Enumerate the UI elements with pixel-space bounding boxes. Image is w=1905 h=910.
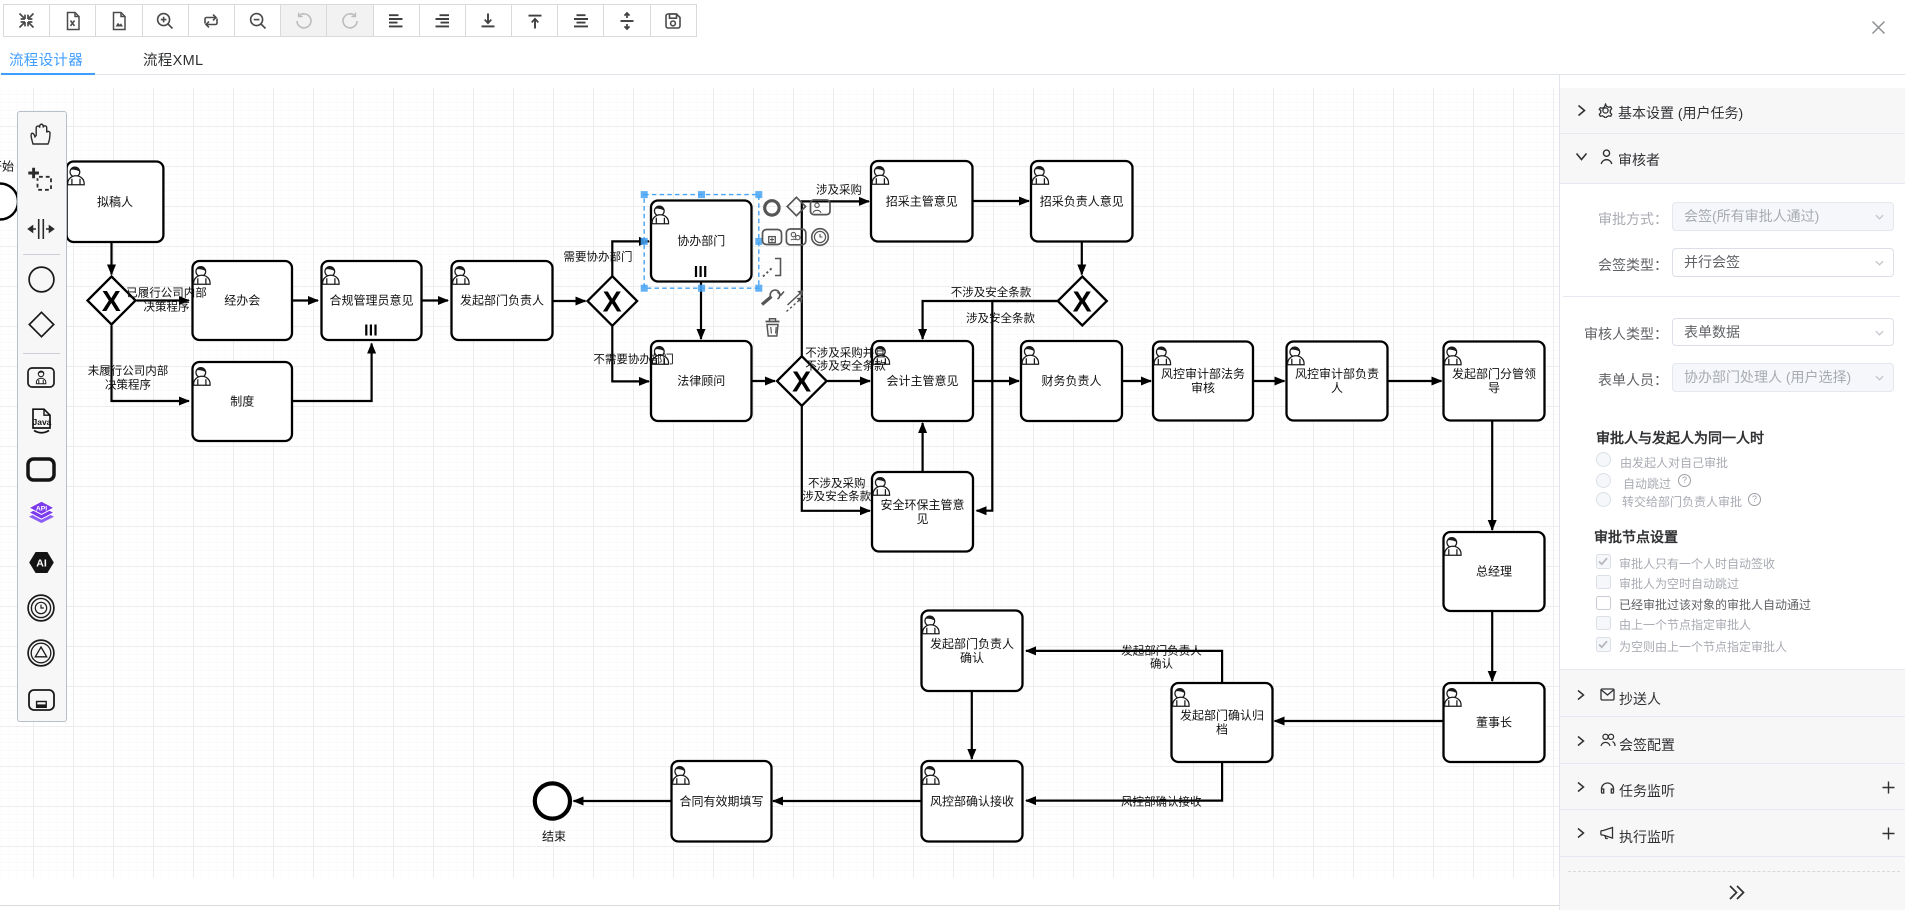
context pad: append call activity bbox=[763, 230, 782, 245]
svg-text:法律顾问: 法律顾问 bbox=[677, 374, 725, 388]
task 拟稿人 bbox=[67, 162, 164, 243]
flow 安全环保主管意见 to 会计主管意见 bbox=[921, 423, 923, 472]
task 招采负责人意见 bbox=[1031, 161, 1133, 242]
svg-text:决策程序: 决策程序 bbox=[105, 378, 151, 392]
task 会计主管意见 bbox=[872, 341, 973, 421]
svg-text:风控部确认接收: 风控部确认接收 bbox=[1121, 795, 1202, 809]
svg-text:X: X bbox=[1073, 286, 1092, 318]
flow 法律顾问 to gw4 bbox=[752, 380, 776, 382]
flow 招采主管意见 to 招采负责人意见 bbox=[973, 200, 1030, 202]
flow 风控审计部负责人 to 发起部门分管领导 bbox=[1388, 380, 1442, 382]
context pad: wrench (change type) bbox=[762, 290, 784, 304]
svg-text:会计主管意见: 会计主管意见 bbox=[886, 373, 958, 388]
svg-text:AI: AI bbox=[37, 557, 48, 569]
svg-text:董事长: 董事长 bbox=[1476, 716, 1512, 730]
svg-text:不涉及采购并且: 不涉及采购并且 bbox=[805, 346, 886, 360]
svg-text:风控审计部负责: 风控审计部负责 bbox=[1295, 366, 1379, 381]
flow 拟稿人 to gw1 bbox=[110, 243, 112, 275]
task 制度 bbox=[193, 362, 293, 441]
task 风控审计部负责人 bbox=[1287, 342, 1388, 421]
gateway gw1 exclusive bbox=[88, 277, 136, 325]
flow 发起部门负责人 to gw2 bbox=[553, 300, 586, 302]
flow 风控审计部法务审核 to 风控审计部负责人 bbox=[1254, 380, 1285, 382]
svg-text:涉及安全条款: 涉及安全条款 bbox=[966, 311, 1035, 325]
svg-text:未履行公司内部: 未履行公司内部 bbox=[88, 364, 169, 378]
svg-text:发起部门分管领: 发起部门分管领 bbox=[1452, 366, 1536, 381]
task 法律顾问 bbox=[651, 341, 752, 421]
flow gw4 to 招采主管意见 涉及采购 bbox=[802, 201, 869, 356]
svg-text:审核: 审核 bbox=[1191, 380, 1215, 395]
context pad: append gateway bbox=[787, 197, 805, 215]
svg-text:决策程序: 决策程序 bbox=[144, 300, 190, 314]
svg-text:已履行公司内部: 已履行公司内部 bbox=[126, 286, 207, 300]
flow gw3 to 会计主管意见 不涉及安全条款 bbox=[923, 301, 1058, 339]
flow gw2 to 法律顾问 不需要协办部门 bbox=[612, 326, 649, 381]
svg-text:不涉及采购: 不涉及采购 bbox=[808, 476, 866, 490]
task 安全环保主管意见 bbox=[872, 472, 973, 552]
svg-text:拟稿人: 拟稿人 bbox=[97, 194, 133, 209]
svg-text:档: 档 bbox=[1216, 723, 1228, 737]
svg-text:发起部门负责人: 发起部门负责人 bbox=[930, 636, 1014, 651]
svg-text:结束: 结束 bbox=[542, 830, 566, 844]
svg-text:涉及安全条款: 涉及安全条款 bbox=[802, 489, 871, 503]
svg-text:发起部门负责人: 发起部门负责人 bbox=[1121, 644, 1202, 658]
flow 会计主管意见 to 财务负责人 bbox=[974, 380, 1020, 382]
task 发起部门确认归档 bbox=[1172, 683, 1273, 762]
selection box around 协办部门 bbox=[644, 195, 759, 289]
flow start to 拟稿人 bbox=[19, 200, 63, 202]
flow 发起部门确认归档 to 风控部确认接收 bbox=[1026, 763, 1222, 801]
svg-text:Java: Java bbox=[33, 417, 52, 427]
svg-text:不涉及安全条款: 不涉及安全条款 bbox=[805, 359, 886, 373]
flow 合同有效期填写 to end bbox=[574, 800, 672, 802]
svg-text:发起部门负责人: 发起部门负责人 bbox=[460, 293, 544, 308]
svg-text:协办部门: 协办部门 bbox=[677, 233, 725, 248]
svg-text:总经理: 总经理 bbox=[1476, 565, 1512, 579]
context pad: append intermediate event bbox=[812, 229, 829, 246]
svg-text:安全环保主管意: 安全环保主管意 bbox=[880, 497, 964, 512]
svg-text:招采主管意见: 招采主管意见 bbox=[886, 193, 958, 208]
task 财务负责人 bbox=[1021, 341, 1122, 421]
flow 发起部门负责人确认 to 风控部确认接收 bbox=[971, 691, 973, 759]
flow gw1 to 制度 未履行 bbox=[112, 326, 190, 402]
task 风控部确认接收 bbox=[922, 761, 1023, 842]
context pad: connect tool bbox=[787, 291, 803, 312]
task 风控审计部法务审核 bbox=[1153, 342, 1253, 421]
svg-text:不涉及安全条款: 不涉及安全条款 bbox=[951, 285, 1032, 299]
task 发起部门负责人 bbox=[452, 261, 553, 340]
svg-text:API: API bbox=[36, 505, 47, 512]
svg-text:合规管理员意见: 合规管理员意见 bbox=[329, 293, 413, 308]
svg-text:开始: 开始 bbox=[0, 160, 14, 174]
flow gw1 to 经办会 已履行 bbox=[137, 299, 190, 301]
task 董事长 bbox=[1444, 683, 1545, 762]
task 经办会 bbox=[193, 261, 293, 340]
flow 财务负责人 to 风控审计部法务审核 bbox=[1123, 380, 1152, 382]
task 招采主管意见 bbox=[871, 161, 973, 242]
gateway gw2 exclusive bbox=[588, 276, 638, 326]
context pad: text annotation bbox=[763, 259, 781, 277]
task 合规管理员意见 bbox=[322, 261, 422, 340]
task 发起部门分管领导 bbox=[1444, 342, 1545, 421]
flow 发起部门确认归档 to 发起部门负责人确认 bbox=[1026, 651, 1222, 683]
tabs bbox=[9, 49, 83, 70]
context pad: delete (trash) bbox=[766, 319, 780, 336]
flow 经办会 to 合规管理员意见 bbox=[292, 299, 318, 301]
context pad: append script/business task bbox=[786, 229, 805, 245]
svg-text:见: 见 bbox=[916, 512, 928, 526]
flow 总经理 to 董事长 bbox=[1491, 612, 1493, 682]
context pad: append user task bbox=[811, 200, 831, 215]
gateway gw3 exclusive bbox=[1058, 277, 1107, 326]
svg-text:X: X bbox=[603, 286, 622, 318]
svg-text:发起部门确认归: 发起部门确认归 bbox=[1180, 708, 1264, 723]
task 协办部门 bbox=[651, 201, 752, 282]
svg-text:需要协办部门: 需要协办部门 bbox=[564, 250, 633, 264]
svg-text:不需要协办部门: 不需要协办部门 bbox=[593, 352, 674, 366]
svg-text:合同有效期填写: 合同有效期填写 bbox=[679, 794, 763, 809]
flow 招采负责人意见 to gw3 bbox=[1081, 242, 1083, 275]
svg-text:经办会: 经办会 bbox=[224, 293, 260, 308]
flow 风控部确认接收 to 合同有效期填写 bbox=[773, 800, 921, 802]
svg-text:风控部确认接收: 风控部确认接收 bbox=[930, 794, 1014, 809]
svg-text:确认: 确认 bbox=[1150, 658, 1173, 671]
flow gw4 to 会计主管意见 不涉及采购并且不涉及安全条款 bbox=[827, 380, 870, 382]
flow gw4 to 安全环保主管意见 不涉及采购涉及安全条款 bbox=[802, 406, 870, 511]
svg-text:招采负责人意见: 招采负责人意见 bbox=[1040, 193, 1124, 208]
svg-text:导: 导 bbox=[1488, 381, 1500, 395]
flow gw3 to 安全环保主管意见 涉及安全条款 bbox=[977, 301, 1058, 511]
gateway gw4 exclusive bbox=[777, 356, 827, 406]
svg-text:确认: 确认 bbox=[960, 651, 984, 665]
task 总经理 bbox=[1444, 532, 1545, 611]
flow gw2 to 协办部门 需要协办部门 bbox=[612, 241, 649, 276]
flow 合规管理员意见 to 发起部门负责人 bbox=[422, 299, 448, 301]
svg-text:财务负责人: 财务负责人 bbox=[1041, 373, 1101, 388]
flow 董事长 to 发起部门确认归档 bbox=[1275, 720, 1444, 722]
svg-text:X: X bbox=[102, 286, 121, 318]
task 发起部门负责人确认 bbox=[922, 611, 1023, 692]
flow 协办部门 to 法律顾问 bbox=[700, 282, 702, 339]
svg-text:人: 人 bbox=[1331, 381, 1343, 395]
svg-text:风控审计部法务: 风控审计部法务 bbox=[1161, 366, 1245, 381]
context pad: append end event bbox=[765, 201, 779, 215]
flow 制度 to 合规管理员意见 bbox=[292, 344, 372, 402]
start event (clipped at left edge) bbox=[0, 184, 18, 220]
flow 发起部门分管领导 to 总经理 bbox=[1491, 421, 1493, 530]
task 合同有效期填写 bbox=[672, 761, 772, 842]
end event bbox=[535, 783, 570, 818]
svg-text:涉及采购: 涉及采购 bbox=[816, 182, 862, 196]
svg-text:制度: 制度 bbox=[230, 394, 254, 409]
